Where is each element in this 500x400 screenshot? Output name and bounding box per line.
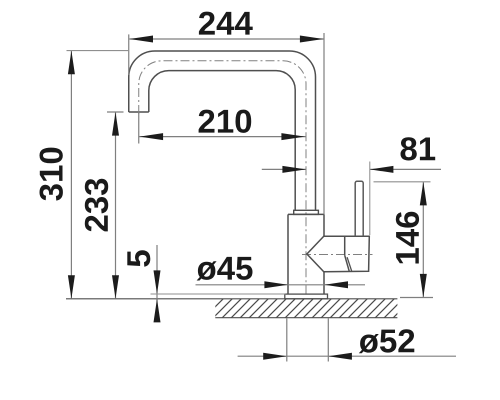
dimension 146 line [422, 182, 424, 298]
dimension 81 left arrow (points right) [282, 166, 306, 173]
dimension 310 bottom arrow [68, 275, 75, 299]
dimension 233 top arrow [112, 112, 119, 136]
dimension 146 bottom extension line [400, 297, 433, 299]
dimension 210 left arrow [140, 133, 164, 140]
dimension 146 top extension line [374, 181, 431, 183]
dimension 81 label [401, 137, 436, 160]
spout tube inner outline [149, 71, 295, 211]
dimension d45 right arrow (points left) [324, 281, 348, 288]
dimension 81 right shaft [370, 168, 441, 170]
cartridge notch diagonal [347, 257, 352, 271]
dimension 310 label (rotated) [40, 148, 63, 201]
dimension d52 left extension line [286, 318, 288, 361]
body cylinder left edge [287, 214, 289, 294]
dimension 233 label (rotated) [85, 179, 108, 232]
dimension 310 top arrow [68, 51, 75, 75]
dimension d52 left arrow (points right) [263, 353, 287, 360]
outlet centerline extension [138, 113, 140, 144]
spout outlet bottom edge [129, 111, 149, 113]
spout centerline (dash-dot) [139, 61, 306, 296]
dimension 81 right arrow (points left) [370, 166, 394, 173]
dimension 81 left shaft [262, 168, 306, 170]
countertop surface line [66, 298, 397, 300]
dimension 244 right arrow [300, 36, 324, 43]
dimension d45 leader line [196, 284, 366, 286]
cartridge cap line vertical [344, 237, 346, 256]
dimension d45 left arrow (points right) [264, 281, 288, 288]
dimension 244 left arrow [129, 36, 153, 43]
dimension d52 label [359, 329, 415, 353]
joint housing outline [324, 236, 369, 271]
dimension 146 bottom arrow [420, 274, 427, 298]
collar under tube [294, 210, 319, 214]
dimension 233 line [115, 112, 117, 299]
handle lever [355, 181, 363, 236]
dimension 210 label [199, 110, 252, 133]
dimension d52 right extension line [327, 318, 329, 361]
dimension 210 right arrow [281, 133, 305, 140]
dimension 233 bottom arrow [112, 275, 119, 299]
cartridge cap diagonal [345, 255, 350, 271]
body cylinder right edge upper [323, 214, 325, 236]
dimension 146 label (rotated) [396, 212, 419, 264]
dimension 244 left extension line [128, 34, 130, 75]
dimension 5 lower arrow (points up) [154, 299, 161, 323]
dimension 233 top extension line [107, 111, 124, 113]
dimension d52 right arrow (points left) [328, 353, 352, 360]
dimension 146 top arrow [420, 182, 427, 206]
countertop hatched section [215, 299, 397, 318]
dimension d52 line [238, 355, 456, 357]
joint horizontal centerline (dash-dot) [302, 254, 373, 256]
dimension 244 right extension line [323, 33, 325, 214]
dimension 310 top extension line [67, 50, 130, 52]
countertop bottom edge [215, 317, 397, 319]
dimension 210 line [139, 136, 306, 138]
dimension 5 line [156, 245, 158, 322]
dimension 81 right extension line [369, 162, 371, 236]
base plate [285, 294, 328, 299]
body cylinder top edge [288, 213, 324, 215]
cone wedge to joint [307, 236, 324, 272]
dimension 244 line [129, 38, 323, 40]
dimension 5 upper extension line [151, 293, 286, 295]
dimension d45 label [197, 257, 253, 281]
dimension 5 label (rotated) [127, 250, 150, 267]
dimension 244 label [199, 12, 253, 35]
spout tube outer outline [129, 51, 316, 210]
dimension 310 line [70, 51, 72, 299]
dimension 5 upper arrow (points down) [154, 270, 161, 294]
body cylinder right edge lower [323, 272, 325, 294]
